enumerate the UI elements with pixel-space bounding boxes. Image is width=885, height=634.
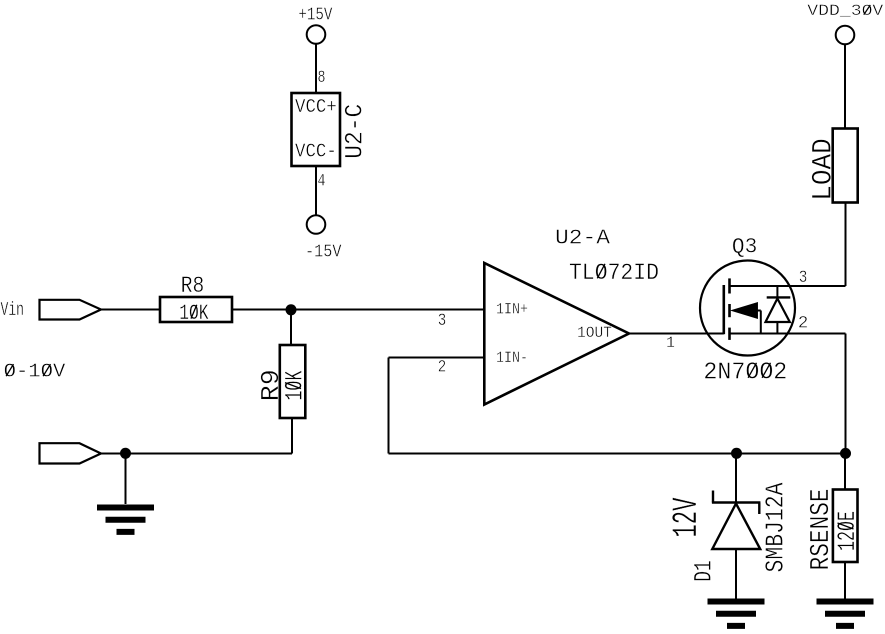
source link vertical	[760, 311, 762, 334]
svg-text:VDD_3OV: VDD_3OV	[807, 2, 883, 20]
svg-text:1: 1	[666, 334, 675, 352]
op-amp U2-A triangle	[484, 263, 629, 405]
svg-text:12OE: 12OE	[833, 511, 862, 551]
svg-text:R8: R8	[181, 273, 205, 299]
wire op-amp pin 2	[389, 357, 485, 359]
value 10K	[179, 301, 209, 326]
body diode cathode lead	[776, 286, 778, 299]
resistor RSENSE	[833, 490, 858, 563]
pin number 8	[318, 69, 326, 88]
svg-text:VCC-: VCC-	[295, 141, 337, 163]
svg-text:U2-A: U2-A	[555, 227, 610, 251]
wire RSENSE to ground	[844, 562, 846, 599]
part SMBJ12A	[761, 482, 791, 572]
channel dash drain	[728, 278, 731, 293]
power terminal VDD_30V circle	[836, 26, 855, 45]
power terminal +15V circle	[307, 25, 326, 44]
power flag -15V label	[305, 240, 342, 262]
pin number 2 source	[798, 315, 808, 334]
transistor Q3 body circle	[700, 261, 795, 356]
wire to RSENSE	[844, 454, 846, 490]
label R9	[256, 369, 286, 401]
ground D1	[708, 602, 765, 626]
junction node ground tap	[120, 448, 131, 459]
svg-text:D1: D1	[690, 560, 719, 582]
diode D1 triangle	[712, 504, 760, 550]
wire D1 anode to ground	[735, 549, 737, 599]
wire op-amp output to gate	[629, 333, 724, 335]
wire to D1 cathode	[735, 454, 737, 503]
value 120E	[833, 511, 862, 551]
wire source to bottom rail	[845, 334, 847, 454]
svg-text:3: 3	[799, 269, 808, 288]
svg-text:1OK: 1OK	[179, 301, 209, 326]
svg-text:2: 2	[798, 315, 808, 334]
ground RSENSE	[817, 602, 874, 626]
svg-text:1OK: 1OK	[281, 370, 310, 400]
wire bottom-left rail	[101, 453, 292, 455]
svg-text:Q3: Q3	[732, 234, 757, 260]
power flag VDD_30V label	[807, 2, 883, 20]
pin number 4	[318, 172, 326, 191]
junction node R8/R9	[286, 304, 297, 315]
resistor LOAD	[833, 129, 858, 203]
reference Q3	[732, 234, 757, 260]
svg-text:LOAD: LOAD	[809, 138, 840, 201]
channel dash source	[728, 328, 731, 340]
power flag +15V label	[298, 3, 333, 25]
pin number 2	[438, 359, 447, 378]
svg-text:Vin: Vin	[1, 299, 25, 321]
svg-text:4: 4	[318, 172, 326, 191]
input connector Vin	[40, 300, 102, 320]
svg-text:1IN+: 1IN+	[496, 300, 528, 318]
resistor R9	[280, 345, 306, 418]
junction node D1	[731, 448, 742, 459]
wire feedback bottom rail	[389, 453, 846, 455]
label 0-10V	[4, 361, 66, 383]
svg-text:12V: 12V	[667, 498, 707, 538]
wire Vin to op-amp pin 3	[101, 309, 484, 311]
zener bar left tick	[712, 491, 714, 503]
pin number 3	[438, 312, 447, 331]
power terminal -15V circle	[307, 215, 326, 234]
svg-text:3: 3	[438, 312, 447, 331]
pin name 1IN-	[496, 349, 528, 367]
value 10K	[281, 370, 310, 400]
wire R9 to bottom rail	[291, 418, 293, 454]
value 2N7002	[703, 359, 787, 386]
body diode triangle	[766, 299, 790, 323]
wire VDD to LOAD	[844, 45, 846, 129]
op-amp U2-C power unit box	[292, 93, 341, 166]
net label Vin	[1, 299, 25, 321]
pin name VCC-	[295, 141, 337, 163]
reference U2-A	[555, 227, 610, 251]
svg-text:TLO72ID: TLO72ID	[569, 260, 659, 286]
wire VCC- pin to -15V	[315, 166, 317, 215]
reference U2-C	[341, 104, 370, 159]
value TL072ID	[569, 260, 659, 286]
wire +15V to VCC+ pin	[315, 44, 317, 93]
wire junction to R9	[290, 310, 292, 345]
return connector	[40, 443, 102, 463]
zener bar right tick	[758, 503, 760, 515]
zener cathode bar	[712, 501, 761, 503]
ground left	[97, 508, 154, 532]
svg-text:8: 8	[318, 69, 326, 88]
svg-text:VCC+: VCC+	[295, 96, 337, 118]
substrate arrow	[733, 303, 758, 318]
resistor R8	[160, 297, 232, 322]
pin number 1	[666, 334, 675, 352]
label R8	[181, 273, 205, 299]
label LOAD	[809, 138, 840, 201]
body diode cathode bar	[767, 296, 791, 298]
pin name 1OUT	[577, 324, 612, 342]
wire feedback vertical	[388, 358, 390, 454]
svg-text:1OUT: 1OUT	[577, 324, 612, 342]
svg-text:1IN-: 1IN-	[496, 349, 528, 367]
channel dash body	[728, 304, 731, 317]
body diode anode lead	[776, 322, 778, 334]
svg-text:-15V: -15V	[305, 240, 342, 262]
svg-text:U2-C: U2-C	[341, 104, 370, 159]
value 12V	[667, 498, 707, 538]
svg-text:2: 2	[438, 359, 447, 378]
pin name VCC+	[295, 96, 337, 118]
wire drain	[730, 285, 846, 287]
svg-text:SMBJ12A: SMBJ12A	[761, 482, 791, 572]
label RSENSE	[807, 488, 837, 570]
wire to ground	[125, 454, 127, 505]
svg-text:+15V: +15V	[298, 3, 333, 25]
reference D1	[690, 560, 719, 582]
pin number 3 drain	[799, 269, 808, 288]
svg-text:2N7OO2: 2N7OO2	[703, 359, 787, 386]
pin name 1IN+	[496, 300, 528, 318]
wire source	[730, 333, 846, 335]
arrow to source link	[757, 310, 761, 312]
junction node source/RSENSE	[840, 448, 851, 459]
wire LOAD to drain	[845, 203, 847, 287]
gate bar	[722, 285, 725, 334]
